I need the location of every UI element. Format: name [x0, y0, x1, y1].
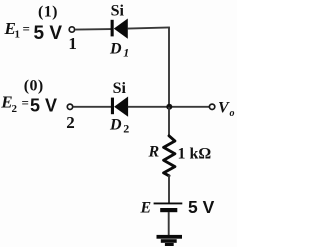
diode D2 [111, 97, 128, 117]
output terminal Vo [209, 104, 214, 109]
wire vertical bus top corner down to junction [168, 27, 170, 106]
svg-text:1 kΩ: 1 kΩ [178, 146, 212, 163]
source label E2 = 5 V [0, 93, 57, 116]
svg-text:V: V [218, 100, 230, 117]
svg-text:5 V: 5 V [30, 95, 57, 115]
wire resistor to battery [168, 175, 170, 203]
wire battery to ground [168, 212, 170, 236]
svg-text:D: D [109, 116, 122, 133]
battery E [154, 203, 183, 212]
ground [157, 235, 183, 246]
label D1 [109, 40, 129, 59]
terminal 1 [69, 27, 74, 32]
svg-text:E: E [140, 200, 152, 217]
svg-text:Si: Si [113, 80, 127, 97]
svg-text:1: 1 [68, 34, 77, 53]
wire D2 through junction to output [128, 106, 210, 108]
svg-text:(0): (0) [24, 78, 44, 95]
svg-text:2: 2 [66, 113, 75, 132]
svg-text:o: o [230, 108, 235, 119]
svg-text:=: = [22, 95, 29, 110]
svg-text:D: D [109, 40, 122, 57]
label Vo [218, 100, 235, 119]
wire input1 to diode D1 [75, 28, 111, 31]
svg-text:5 V: 5 V [34, 23, 63, 44]
svg-text:Si: Si [111, 2, 125, 19]
svg-text:R: R [148, 144, 160, 161]
wire D1 to top corner [128, 27, 170, 28]
svg-text:(1): (1) [38, 3, 58, 20]
source label E1 = 5 V [4, 19, 63, 44]
label D2 [109, 116, 129, 135]
diode D1 [111, 19, 128, 39]
svg-text:2: 2 [123, 122, 129, 136]
svg-text:1: 1 [123, 45, 129, 59]
wire input2 to diode D2 [73, 106, 111, 108]
resistor R zigzag [164, 136, 175, 176]
svg-text:2: 2 [12, 103, 18, 115]
svg-text:5 V: 5 V [188, 197, 215, 217]
svg-text:=: = [23, 21, 30, 36]
svg-text:1: 1 [15, 29, 21, 41]
wire junction to resistor [168, 107, 170, 137]
terminal 2 [67, 104, 72, 109]
junction node dot [166, 104, 172, 110]
